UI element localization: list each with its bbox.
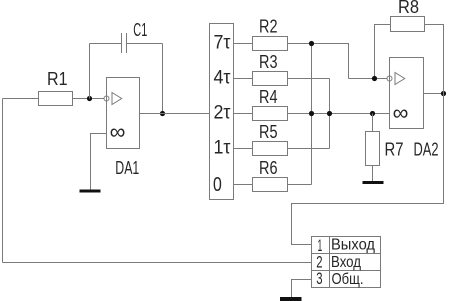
wire R5 to bus2 [288, 148, 330, 150]
svg-text:Вход: Вход [331, 254, 362, 271]
label Obsch [332, 271, 364, 288]
svg-text:R4: R4 [259, 87, 278, 107]
resistor R5 [253, 122, 288, 156]
svg-text:7τ: 7τ [214, 33, 231, 54]
label tap 2t [214, 103, 231, 124]
wire tap 2t to R4 [234, 113, 253, 115]
wire tap 4t to R3 [234, 78, 253, 80]
svg-text:∞: ∞ [110, 119, 126, 144]
svg-text:DA1: DA1 [115, 158, 139, 178]
wire tap 7t to R2 [234, 43, 253, 45]
label pin 3 [316, 269, 322, 288]
wire input left vertical [2, 99, 4, 263]
label tap 1t [214, 138, 231, 159]
wire input to R1 [3, 98, 39, 100]
node bus1 R4 junction [309, 111, 314, 116]
op-amp DA2 [387, 58, 439, 160]
wire R4 row to DA2 non-inverting input [288, 113, 390, 115]
resistor R8 [391, 0, 425, 32]
svg-text:R8: R8 [398, 0, 419, 17]
wire R7 bottom [372, 166, 374, 182]
op-amp DA1 [104, 78, 140, 179]
wire output down to pin 1 [292, 94, 444, 245]
resistor R4 [253, 87, 288, 121]
svg-text:C1: C1 [133, 20, 147, 40]
wire R8 left to feedback [375, 25, 391, 79]
node DA2 output junction [441, 91, 446, 96]
wire R3 to bus2 [288, 78, 330, 80]
label tap 0 [213, 173, 222, 196]
svg-text:0: 0 [213, 173, 222, 196]
svg-text:DA2: DA2 [414, 140, 439, 160]
capacitor C1 [122, 20, 148, 53]
wire tap 1t to R5 [234, 148, 253, 150]
node bus2 R4 junction [327, 111, 332, 116]
svg-text:R2: R2 [259, 17, 278, 37]
node R7 junction [370, 111, 375, 116]
wire R7 top [372, 114, 374, 132]
svg-text:R1: R1 [47, 69, 68, 89]
svg-text:Общ.: Общ. [332, 271, 364, 288]
svg-text:R7: R7 [385, 140, 404, 160]
ground DA1 [80, 190, 101, 193]
connector block [312, 237, 381, 288]
wire bus1 vertical [311, 44, 313, 185]
label pin 2 [316, 253, 322, 272]
svg-text:1τ: 1τ [214, 138, 231, 159]
label Vyhod [331, 237, 376, 254]
wire R2 to DA2 inverting corner [288, 44, 349, 79]
wire R1 to DA1 input [73, 98, 105, 100]
node DA2 feedback junction [372, 76, 377, 81]
node DA1 output junction [160, 111, 165, 116]
label Vhod [331, 254, 362, 271]
resistor R3 [253, 52, 288, 86]
svg-text:2τ: 2τ [214, 103, 231, 124]
wire bottom horizontal to pin 2 [3, 262, 312, 264]
svg-text:∞: ∞ [393, 100, 409, 125]
wire DA2 output [424, 93, 444, 95]
svg-text:R6: R6 [259, 158, 278, 178]
delay line tapped box [210, 24, 234, 200]
node input junction [87, 96, 92, 101]
wire DA1 output to delay line [140, 113, 210, 115]
wire pin 3 to ground [292, 280, 312, 298]
svg-text:R5: R5 [259, 122, 278, 142]
resistor R7 [366, 132, 404, 166]
wire DA2 inverting input line [349, 78, 388, 80]
wire C1 right [127, 43, 163, 45]
node bus1 top junction [309, 41, 314, 46]
wire R6 to bus1 [288, 184, 312, 186]
label pin 1 [318, 236, 323, 255]
svg-text:Выход: Выход [331, 237, 376, 254]
wire output up to R8 [425, 25, 444, 94]
wire DA1 non-inverting input [91, 134, 107, 190]
svg-text:3: 3 [316, 269, 322, 288]
resistor R6 [253, 158, 288, 192]
ground pin 3 [280, 297, 302, 301]
wire tap 0 to R6 [234, 184, 253, 186]
resistor R1 [39, 69, 73, 106]
label tap 7t [214, 33, 231, 54]
ground R7 [363, 181, 384, 184]
wire feedback vertical right [162, 44, 164, 114]
svg-text:4τ: 4τ [214, 68, 231, 89]
wire feedback vertical left [89, 44, 91, 99]
wire feedback top to C1 [90, 43, 122, 45]
label tap 4t [214, 68, 231, 89]
resistor R2 [253, 17, 288, 51]
wire bus2 vertical [329, 79, 331, 149]
svg-text:R3: R3 [259, 52, 278, 72]
